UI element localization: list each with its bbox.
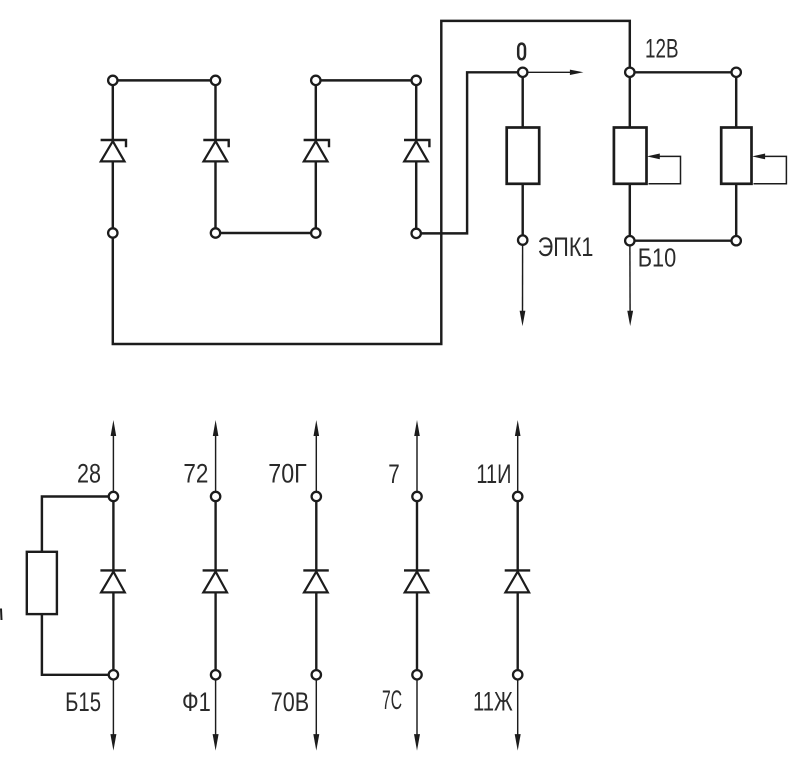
relay K1 actuating arrow (647, 154, 681, 184)
node 12V (625, 68, 634, 77)
diode VD6 (203, 570, 229, 592)
zener diode VD2 (203, 140, 228, 161)
node 0 (518, 68, 527, 77)
svg-text:Ф1: Ф1 (182, 687, 211, 717)
svg-text:12В: 12В (645, 33, 679, 63)
branch 5 bottom arrow lead (515, 675, 521, 751)
svg-text:Б15: Б15 (65, 687, 101, 717)
branch 4 wire between terminals (416, 497, 418, 675)
wire column VD3 (315, 80, 317, 233)
svg-text:7С: 7С (382, 685, 402, 715)
svg-text:11И: 11И (476, 459, 511, 489)
branch 2 bottom arrow lead (213, 675, 219, 751)
wire B10 node to right bottom node (630, 239, 736, 241)
zener diode VD3 (304, 140, 329, 161)
svg-text:70Г: 70Г (268, 459, 307, 489)
label 0 (518, 44, 525, 60)
branch 1 wire between terminals (112, 497, 114, 675)
svg-text:11Ж: 11Ж (473, 687, 513, 717)
branch 3 wire between terminals (315, 497, 317, 675)
wire VD4 anode to node 0 (416, 72, 523, 233)
node right relay top (732, 68, 741, 77)
branch 5 wire between terminals (517, 497, 519, 675)
node VD1 bottom (108, 228, 117, 237)
node VD2 bottom (211, 228, 220, 237)
arrow lead below EPK1 (520, 245, 526, 326)
diode VD9 (505, 570, 531, 592)
node VD4 bottom (412, 229, 421, 238)
branch 5 bottom terminal node (513, 670, 522, 679)
wire column VD4 (415, 80, 417, 233)
svg-text:28: 28 (77, 459, 101, 489)
branch 4 bottom arrow lead (414, 675, 420, 751)
branch 2 wire between terminals (214, 497, 216, 675)
svg-text:70В: 70В (271, 687, 309, 717)
branch 1 bottom terminal node (109, 670, 118, 679)
svg-text:72: 72 (183, 459, 208, 489)
relay coil K2 rectangle (721, 128, 751, 184)
wire column VD1 (112, 80, 114, 233)
wire top bus D3-D4 (316, 79, 416, 81)
wire 12V node to right node (630, 71, 736, 73)
wire right relay column (735, 72, 737, 240)
node VD4 top (412, 76, 421, 85)
relay coil K1 rectangle (614, 128, 647, 184)
wire bottom bus D2-D3 (216, 232, 316, 234)
node right relay bottom (732, 236, 741, 245)
zener diode VD4 (404, 140, 429, 161)
node VD3 bottom (311, 228, 320, 237)
wire 12V column (629, 72, 631, 240)
svg-text:Б10: Б10 (638, 245, 677, 273)
node VD3 top (311, 76, 320, 85)
branch 3 top terminal node (312, 492, 321, 501)
branch 2 bottom terminal node (211, 670, 220, 679)
node B10 (625, 236, 634, 245)
branch 3 bottom arrow lead (313, 675, 319, 751)
branch 3 top arrow lead (314, 420, 320, 497)
wire top bus D1-D2 (113, 79, 216, 81)
branch 4 bottom terminal node (412, 670, 421, 679)
branch 1 bottom arrow lead (110, 675, 116, 751)
arrow lead below B10 (627, 245, 633, 326)
diode VD5 (100, 570, 126, 592)
wire column VD2 (214, 80, 216, 233)
branch 1 top terminal node (109, 492, 118, 501)
svg-text:ЭПК1: ЭПК1 (538, 232, 594, 262)
resistor R1 rectangle (27, 552, 57, 614)
branch 1 top arrow lead (111, 420, 117, 497)
branch 3 bottom terminal node (312, 670, 321, 679)
resistor branch wire (42, 497, 114, 675)
coil EPK1 rectangle (507, 128, 540, 184)
node VD1 top (108, 76, 117, 85)
branch 4 top terminal node (412, 492, 421, 501)
branch 5 top terminal node (513, 492, 522, 501)
svg-text:7: 7 (388, 459, 400, 489)
relay K2 actuating arrow (752, 154, 786, 184)
scan artifact left edge (0, 609, 3, 621)
zener diode VD1 (101, 140, 126, 161)
node EPK1 bottom (518, 235, 527, 244)
diode VD7 (303, 570, 329, 592)
branch 5 top arrow lead (515, 420, 521, 497)
branch 2 top terminal node (211, 492, 220, 501)
wire coil EPK1 column (521, 72, 523, 240)
node VD2 top (211, 76, 220, 85)
diode VD8 (404, 570, 430, 592)
branch 4 top arrow lead (414, 420, 420, 497)
arrow from node 0 to the right (528, 70, 583, 75)
wire main loop from VD1 anode to 12V node (113, 21, 630, 344)
branch 2 top arrow lead (213, 420, 219, 497)
